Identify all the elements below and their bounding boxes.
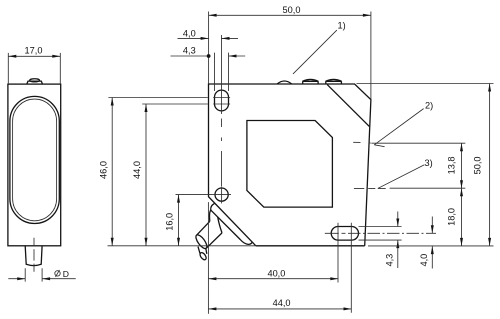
- top slot crosshair ticks: [213, 98, 230, 105]
- middle hole circle: [215, 188, 228, 201]
- svg-text:2): 2): [425, 101, 433, 111]
- dim 40,0 line: [208, 278, 338, 280]
- axis 2 extension line: [371, 142, 465, 144]
- connector neck right side: [218, 217, 222, 233]
- connector cylinder end cap: [194, 233, 209, 250]
- svg-text:18,0: 18,0: [446, 208, 456, 226]
- note 2 leader: [374, 109, 423, 145]
- dim 18,0 arrows: [460, 188, 463, 246]
- dim 4,3 top lines: [171, 55, 246, 57]
- svg-text:1): 1): [338, 21, 346, 31]
- dim 4,0 right arrows: [431, 225, 434, 254]
- front view body outline: [209, 84, 371, 246]
- dim D extension lines: [25, 268, 42, 281]
- svg-text:D: D: [63, 269, 69, 279]
- svg-text:4,3: 4,3: [384, 254, 394, 267]
- dim 4,0 right line segments: [431, 217, 433, 269]
- vertical centerline slot to hole: [221, 35, 223, 186]
- dim D lines: [8, 278, 75, 280]
- dim 46,0 line: [111, 98, 113, 246]
- bottom slot top edge extension line: [359, 226, 402, 228]
- middle hole crosshair: [212, 186, 231, 203]
- dim 50,0 top line: [209, 14, 371, 16]
- note 2 leader open arrow tail: [374, 145, 384, 147]
- connector neck left side: [209, 210, 210, 222]
- svg-text:3): 3): [425, 158, 433, 168]
- dim 4,0 top lines: [178, 37, 239, 39]
- side view body rectangle: [8, 84, 61, 246]
- side view bottom cylinder: [25, 246, 42, 266]
- dim 4,3 top arrow: [229, 55, 237, 58]
- svg-text:16,0: 16,0: [164, 213, 174, 231]
- axis 3 extension line: [390, 187, 466, 189]
- svg-text:40,0: 40,0: [267, 268, 285, 278]
- dim 16,0 extension line: [176, 194, 213, 196]
- bottom slot centerline dash-dot: [325, 232, 436, 234]
- dim 40,0 arrows: [208, 277, 338, 280]
- dim 44,0 bottom arrows: [208, 307, 351, 310]
- dim 44,0 extension line: [142, 103, 208, 105]
- svg-text:44,0: 44,0: [273, 298, 291, 308]
- dim D arrows: [17, 277, 50, 280]
- side view cylinder centerline: [33, 238, 35, 272]
- note 2 axis dash-dot: [353, 141, 371, 144]
- connector collar lower edge with shoulder and end curl: [211, 203, 252, 244]
- dim 13,8 arrows: [460, 143, 463, 188]
- note 3 axis dash-dot: [354, 187, 386, 189]
- side view lens window inner stadium: [13, 99, 57, 221]
- dim 13,8 line: [461, 143, 463, 188]
- svg-text:17,0: 17,0: [25, 45, 43, 55]
- connector cylinder sides: [197, 221, 222, 248]
- dome 2 on top: [302, 79, 318, 83]
- svg-text:50,0: 50,0: [283, 5, 301, 15]
- connector corner cut line: [208, 197, 256, 246]
- dim D diameter symbol: [55, 270, 60, 277]
- dim 18,0 line: [461, 188, 463, 246]
- bottom extension line left: [108, 245, 256, 247]
- svg-text:13,8: 13,8: [446, 156, 456, 174]
- dim 4,3 top dot: [207, 54, 211, 58]
- connector nub end cap: [199, 252, 208, 261]
- dim 46,0 extension line: [108, 97, 207, 99]
- svg-text:4,3: 4,3: [183, 46, 196, 56]
- dim 16,0 line: [178, 195, 180, 246]
- dim 44,0 arrows: [145, 104, 148, 246]
- dim 46,0 arrows: [111, 98, 114, 246]
- front view chamfer inner edge: [327, 85, 369, 127]
- dim 50,0 top extension lines: [209, 12, 371, 100]
- dome 1 on top: [277, 81, 291, 84]
- front view lens window octagon: [247, 121, 333, 208]
- top mounting slot: [215, 90, 229, 111]
- note 1 leader: [293, 30, 337, 74]
- dim 50,0 top arrows: [209, 14, 371, 17]
- svg-text:50,0: 50,0: [472, 156, 482, 174]
- side view top bump knob ellipse: [30, 79, 40, 82]
- dim 17,0 arrows: [8, 55, 60, 58]
- svg-text:46,0: 46,0: [98, 161, 108, 179]
- extension line left bottom: [207, 202, 209, 314]
- slot side extension lines: [215, 53, 229, 91]
- bottom slot bottom edge extension line: [359, 239, 402, 241]
- dim 50,0 right arrows: [488, 84, 491, 246]
- svg-text:4,0: 4,0: [183, 28, 196, 38]
- bottom slot vertical ticks and extensions: [338, 223, 351, 313]
- dim 16,0 arrows: [177, 195, 180, 246]
- connector nub sides: [198, 247, 207, 254]
- front view bottom edge: [256, 245, 365, 247]
- dome 3 on top: [326, 79, 342, 83]
- dim 4,0 top arrows: [201, 37, 230, 40]
- dim 17,0 extension lines: [8, 53, 60, 84]
- dim 4,3 right line segments: [397, 212, 399, 269]
- side view top bump plinth: [27, 81, 43, 84]
- bottom edge extension line right: [368, 245, 494, 247]
- dim 4,3 right arrows: [396, 219, 399, 249]
- top edge extension line right: [357, 83, 494, 85]
- svg-text:44,0: 44,0: [132, 161, 142, 179]
- dim 17,0 line: [8, 55, 60, 57]
- dim 44,0 bottom line: [208, 308, 351, 310]
- note 3 leader: [378, 165, 425, 189]
- bottom slot obround: [331, 227, 358, 241]
- svg-text:4,0: 4,0: [419, 254, 429, 267]
- dim 44,0 line: [145, 104, 147, 246]
- side view lens window outer stadium: [10, 96, 59, 223]
- dim 50,0 right line: [489, 84, 491, 246]
